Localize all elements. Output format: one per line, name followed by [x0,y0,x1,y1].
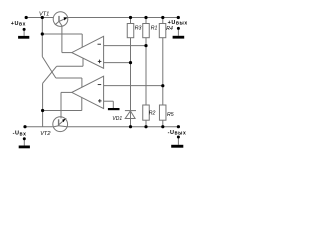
svg-text:+Uвх: +Uвх [11,21,26,28]
svg-text:VD1: VD1 [112,116,122,122]
svg-text:+Uвых: +Uвых [168,20,188,27]
svg-text:R3: R3 [135,25,142,31]
svg-text:R4: R4 [166,26,173,32]
svg-text:-Uвх: -Uвх [13,131,27,138]
svg-text:-Uвых: -Uвых [168,130,187,137]
svg-text:R2: R2 [149,111,156,117]
svg-text:R5: R5 [167,112,174,118]
svg-text:VT1: VT1 [39,11,49,17]
svg-text:VT2: VT2 [40,131,51,137]
svg-text:R1: R1 [151,25,158,31]
